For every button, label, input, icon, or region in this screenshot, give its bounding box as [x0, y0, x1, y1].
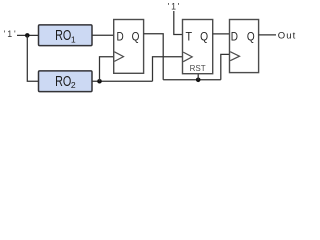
- wire Q of U2 to D of U3: [213, 33, 230, 35]
- wire RST net across: [163, 79, 221, 81]
- svg-text:2: 2: [71, 80, 76, 90]
- svg-text:'1': '1': [4, 29, 18, 39]
- svg-text:Q: Q: [247, 29, 255, 43]
- svg-text:Out: Out: [278, 30, 297, 41]
- svg-text:'1': '1': [168, 2, 182, 12]
- svg-text:D: D: [117, 29, 124, 43]
- svg-text:T: T: [186, 29, 193, 43]
- svg-text:Q: Q: [200, 29, 208, 43]
- svg-text:RST: RST: [190, 64, 206, 73]
- junction node B: [97, 79, 102, 84]
- junction node A: [25, 33, 30, 38]
- svg-text:RO: RO: [55, 28, 71, 44]
- wire node A down to RO2 input: [27, 35, 38, 81]
- wire node C up to RST of U2: [197, 74, 199, 80]
- T flip-flop U2: [183, 20, 213, 74]
- wire RO2 to clock of U2: [153, 57, 183, 81]
- svg-text:D: D: [231, 29, 238, 43]
- D flip-flop U3: [230, 20, 259, 73]
- wire RO1 output to D of U1: [92, 34, 114, 36]
- junction node C: [196, 78, 201, 83]
- clock triangle (U2): [183, 52, 192, 62]
- wire Q of U1 down: [144, 34, 164, 80]
- clock triangle (U1): [114, 52, 123, 62]
- wire '1' to RO1 input: [17, 34, 39, 36]
- wire Q of U3 to Out: [259, 34, 276, 36]
- svg-text:Q: Q: [132, 29, 140, 43]
- wire to clock of U3: [221, 54, 230, 79]
- ring oscillator RO1: [39, 25, 93, 46]
- wire '1' to T of U2: [174, 11, 183, 35]
- svg-text:1: 1: [71, 34, 76, 44]
- svg-text:RO: RO: [55, 74, 71, 90]
- wire node B to clock of U1: [100, 57, 114, 81]
- wire RO2 output: [92, 80, 153, 82]
- ring oscillator RO2: [39, 71, 93, 92]
- D flip-flop U1: [114, 20, 144, 74]
- clock triangle (U3): [230, 52, 239, 61]
